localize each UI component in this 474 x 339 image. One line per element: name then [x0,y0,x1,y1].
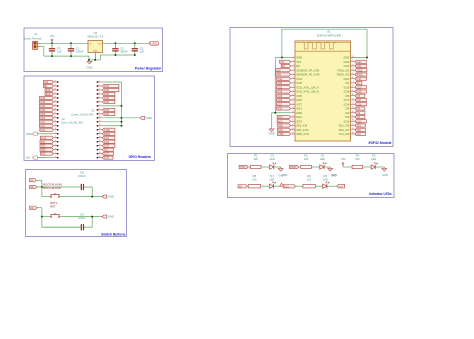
svg-text:IO19: IO19 [357,87,363,89]
svg-text:IO0: IO0 [345,111,350,115]
svg-text:12: 12 [54,112,56,114]
svg-text:8: 8 [99,108,100,110]
svg-text:220: 220 [254,157,259,161]
svg-text:3: 3 [293,64,294,66]
svg-text:IO35: IO35 [104,98,110,100]
J3 pin 18 [97,148,103,150]
node: C5 bottom [51,55,53,57]
svg-text:IO32: IO32 [104,102,110,104]
net label IO25 (U1 left) [277,94,291,98]
svg-text:IO25: IO25 [277,96,283,98]
U1 left pin 17 (SD2_IO9) [291,124,308,128]
LED D4 [269,182,275,189]
J1 reference [34,32,38,36]
svg-text:7: 7 [55,132,56,134]
svg-text:5: 5 [55,140,56,142]
J2 pin 8 [54,128,59,130]
svg-text:20: 20 [99,156,101,158]
wire led1 LED-GND [274,166,281,168]
svg-text:LED: LED [323,177,328,181]
U1 right pin 13 (IO4) [345,107,355,111]
net label IO12 (J2 pin) [40,128,54,132]
svg-text:D4: D4 [270,174,274,178]
svg-text:R1: R1 [254,154,258,158]
U1 right pin 19 (CLK_IO6) [339,132,355,136]
svg-text:IO22: IO22 [357,66,363,68]
net label IO17 (J3 pin) [102,152,113,156]
wire led1 R-LED [261,166,270,168]
net label IO33 (J2 pin) [39,108,53,112]
wire led4 tag-R [247,185,248,187]
wire led5 LED-out [327,185,337,187]
net label EN (boot circuit) [30,179,37,183]
net label IO18 (U1 right) [355,90,367,94]
R2 labels [304,154,309,161]
svg-text:IO26: IO26 [104,114,110,116]
svg-text:IO27: IO27 [40,122,46,124]
net label IO26 (J3 pin) [102,112,115,116]
svg-text:7: 7 [99,104,100,106]
J2 pin 10 [54,120,59,122]
U1 right pin 11 (IO17) [344,98,355,102]
svg-text:IO27: IO27 [277,104,283,106]
U1 left pin 1 (GND) [291,56,302,60]
net label TXD0 (U1 right) [355,69,367,73]
wire led2 R-LED [311,166,320,168]
svg-text:1µF: 1µF [57,50,62,54]
svg-text:IO26: IO26 [296,98,302,102]
net label SD0 (J2 pin) [40,152,53,156]
J3 pin 4 [97,92,103,94]
J3 pin 14 [97,132,103,134]
svg-text:RXD0_IO3: RXD0_IO3 [337,73,350,77]
U1 right pin 7 (NC) [346,81,355,85]
svg-text:IO14: IO14 [277,109,283,111]
svg-text:220: 220 [252,177,257,181]
wire led3 5v-R [343,166,352,168]
net label IO36 (J3 pin) [102,84,119,88]
svg-text:1: 1 [293,56,294,58]
svg-text:5: 5 [99,96,100,98]
J2 reference [62,117,65,121]
U1 left pin 13 (IO14) [291,107,303,111]
net label IO0 (U1 right) [355,111,365,115]
svg-text:CLK: CLK [357,134,362,136]
svg-text:17: 17 [292,124,294,126]
U1 left pin 16 (IO13) [291,119,303,123]
regulator U2 AMS1117-3.3 [88,41,103,60]
net label IO34 (J3 pin) [102,92,115,96]
J2 pin 7 [54,132,59,134]
LED D5 [323,182,329,189]
U1 left pin 4 (SENSOR_VP_IO36) [291,68,320,72]
ground (led4) [280,183,284,186]
wire U1 left pin1 [275,57,291,59]
svg-text:+5V: +5V [340,157,345,161]
svg-text:CMD: CMD [41,150,46,152]
svg-text:8: 8 [55,128,56,130]
svg-text:25: 25 [352,73,354,75]
svg-text:1: 1 [99,80,100,82]
U1 right pin 18 (SD0_IO7) [339,128,355,132]
svg-text:100nF: 100nF [78,216,86,220]
svg-text:IO12: IO12 [41,130,47,132]
svg-text:SD2_IO9: SD2_IO9 [296,124,307,128]
svg-text:IO33_XTAL_32K_N: IO33_XTAL_32K_N [296,90,319,94]
svg-text:IO25: IO25 [296,94,302,98]
wire +5V to J2 pin20 [37,157,53,159]
node: right pin1 junction [366,57,368,59]
svg-text:IO2: IO2 [345,115,350,119]
wire gnd stub [271,113,273,128]
J3 pin 16 [97,140,103,142]
net label CMD (U1 left) [278,132,291,136]
svg-text:100nF: 100nF [78,174,86,178]
C5 labels [57,46,62,53]
svg-text:IO35: IO35 [296,81,302,85]
wire led1 tag-R [248,166,251,168]
svg-text:IO18: IO18 [357,92,363,94]
section box: Indicator LEDs [228,154,395,198]
net label IO15 (led5) [283,185,295,189]
node: +5V/C5 junction [51,42,53,44]
J3 pin 5 [97,96,103,98]
node: bus row7 [121,105,123,107]
net label IO26 (U1 left) [277,98,291,102]
net label TXD0 (led1) [239,165,248,169]
net label 3V3 (U1 left) [280,60,291,64]
U1 left pin 19 (CMD_IO11) [291,132,310,136]
net label IO5 (U1 right) [355,94,365,98]
svg-text:TXD0: TXD0 [240,167,247,169]
svg-text:IO35: IO35 [277,83,283,85]
node: left pin14 junction [274,112,276,114]
svg-text:6: 6 [293,77,294,79]
U1 right pin 1 (GND) [344,56,355,60]
wire J3 pin11 to bus [102,121,121,123]
net label IO35 (J2 pin) [39,100,53,104]
capacitor C6 [132,43,138,55]
wire C9 up [91,217,93,228]
J2 pin 15 [54,100,59,102]
svg-text:IO17: IO17 [104,154,110,156]
net label IO21 (U1 right) [355,77,367,81]
svg-text:SVN: SVN [276,75,281,77]
svg-text:1µF: 1µF [140,50,145,54]
svg-text:VO: VO [98,43,101,45]
svg-text:4: 4 [99,92,100,94]
node: bus row11 [121,121,123,123]
svg-text:+5V: +5V [25,156,30,160]
svg-text:RST: RST [50,205,56,209]
U1 right pin 16 (IO15) [344,119,355,123]
net label IO16 (J3 pin) [102,156,113,160]
J3 pin 12 [97,124,103,126]
svg-text:RST1: RST1 [50,201,58,205]
svg-text:10: 10 [54,120,56,122]
section box: Switch Buttons [26,170,127,237]
U1 right pin 9 (IO18) [344,90,355,94]
J3 pin 10 [97,116,103,118]
svg-text:37: 37 [352,124,354,126]
svg-text:EN: EN [296,64,300,68]
ground (led1) [278,167,283,171]
svg-text:SENSOR_VP_IO36: SENSOR_VP_IO36 [296,68,319,72]
wire 3.3V output rail [103,42,149,44]
svg-text:GND: GND [86,66,92,70]
svg-text:D3: D3 [372,154,376,158]
svg-text:34: 34 [352,111,354,113]
wire led4 LED-GND [274,185,282,187]
section label Switch Buttons [101,232,125,236]
LED D2 [320,163,326,170]
J2 pin 14 [54,104,59,106]
svg-text:3V3: 3V3 [152,42,157,45]
svg-text:IO18: IO18 [344,90,350,94]
U1 left pin 3 (EN) [291,64,300,68]
resistor R1 [251,165,262,168]
wire led5 R-LED [315,185,322,187]
net label IO16 (U1 right) [355,103,367,107]
svg-text:BOOT-FLASH1: BOOT-FLASH1 [43,182,62,186]
GND label (led3) [382,174,388,177]
svg-text:D1: D1 [270,154,274,158]
svg-text:IO34: IO34 [40,98,46,100]
ground flag (reset) [102,215,114,219]
svg-text:IO14: IO14 [40,126,46,128]
svg-text:11: 11 [292,98,294,100]
net label IO13 (J2 pin) [40,136,53,140]
capacitor C9 [42,224,92,230]
wire GND top loop [282,29,367,57]
net label RXD0 (led2) [290,165,299,169]
svg-text:22: 22 [352,60,354,62]
svg-text:6: 6 [99,100,100,102]
C9 labels [78,212,86,220]
GND label (led1) [282,174,288,177]
svg-text:3: 3 [99,88,100,90]
resistor R6 [303,185,315,188]
net label SVP (U1 left) [276,69,291,73]
J2 pin 16 [54,96,59,98]
svg-text:31: 31 [352,98,354,100]
J3 value Conn_01x20_Pin [71,112,94,116]
svg-text:3V3: 3V3 [296,60,301,64]
C8 labels [78,171,86,179]
svg-text:ESP32-WROVER: ESP32-WROVER [317,33,342,37]
J3 pin 3 [97,88,103,90]
svg-text:R2: R2 [304,154,308,158]
svg-text:38: 38 [352,128,354,130]
svg-text:C9: C9 [80,212,84,216]
svg-text:SVP: SVP [276,70,281,72]
power +5V (led3) [340,157,345,167]
net label SVN (J2 pin) [45,92,53,96]
J2 pin 18 [54,88,59,90]
svg-text:IO4: IO4 [345,107,350,111]
svg-text:32: 32 [352,103,354,105]
net label 3V3 (J2 pin) [43,80,53,84]
svg-text:19: 19 [292,132,294,134]
U1 left pin 15 (IO12) [291,115,303,119]
net label TXD0 (J3 pin) [102,128,115,132]
svg-text:Conn_01x20_Pin: Conn_01x20_Pin [61,121,84,125]
svg-text:20: 20 [54,80,56,82]
svg-text:9: 9 [55,124,56,126]
svg-text:16: 16 [54,96,56,98]
net label NC (U1 right) [355,81,362,85]
svg-text:IO33: IO33 [277,92,283,94]
svg-text:SD0: SD0 [41,154,46,156]
wire J3 pin10 to bus [102,117,121,119]
svg-text:CLK_IO6: CLK_IO6 [339,132,350,136]
svg-text:16: 16 [292,120,294,122]
svg-text:100nF: 100nF [120,50,128,54]
U1 right pin 14 (IO0) [345,111,355,115]
svg-text:1: 1 [55,156,56,158]
capacitor C5 [49,43,55,56]
svg-text:LED: LED [270,157,275,161]
svg-text:14: 14 [292,111,294,113]
svg-text:18: 18 [99,148,101,150]
wire GND to J2 pin14 [37,133,53,135]
svg-text:39: 39 [352,132,354,134]
svg-text:SD0_IO7: SD0_IO7 [339,128,350,132]
svg-text:IO16: IO16 [104,158,110,160]
svg-text:IO15: IO15 [284,186,290,188]
U1 left pin 8 (IO32_XTAL_32K_P) [291,85,319,89]
J2 value Conn_01x20_Pin [61,121,84,125]
svg-text:GND: GND [93,51,98,53]
net label IO14 (J2 pin) [39,124,53,128]
wire U1 left pin14 gnd [272,112,291,114]
svg-text:SD2: SD2 [41,142,46,144]
svg-text:IO13: IO13 [278,121,284,123]
R5 labels [252,174,257,181]
svg-text:18: 18 [54,88,56,90]
U1 right pin 12 (IO16) [344,102,355,106]
net label IO21 (J3 pin) [102,136,115,140]
svg-text:IO27: IO27 [296,102,302,106]
svg-text:BOOT-FLASH: BOOT-FLASH [43,186,60,190]
wire left gnd bus [274,58,276,113]
node: bus row12 [121,125,123,127]
GND label (led4) [278,174,284,177]
net label SD1 (U1 right) [355,124,366,128]
wire led3 LED-GND [375,166,384,168]
svg-text:R5: R5 [253,174,257,178]
svg-text:15: 15 [292,115,294,117]
connector J1 screw terminal [33,41,41,49]
svg-text:30: 30 [352,94,354,96]
svg-text:4: 4 [293,69,294,71]
U1 right pin 15 (IO2) [345,115,355,119]
section box: Power Regulator [24,28,163,72]
svg-text:14: 14 [54,104,56,106]
node: C6 top [134,42,136,44]
svg-text:IO33: IO33 [40,110,46,112]
U1 left pin 11 (IO26) [291,98,303,102]
svg-text:IO25: IO25 [104,110,110,112]
D1 labels [270,154,275,161]
svg-text:19: 19 [54,84,56,86]
svg-text:R6: R6 [307,174,311,178]
J3 pin 9 [97,112,103,114]
J2 pin 9 [54,124,59,126]
wire sw1 to gnd node [60,216,102,218]
switch SW1 push button [50,213,60,218]
net label IO32 (U1 left) [277,86,291,90]
node: boot junction [41,186,43,188]
switch SW1 labels [50,201,58,209]
svg-text:IO39: IO39 [104,90,110,92]
net label IO13 (U1 left) [277,120,291,124]
svg-text:GND: GND [108,215,114,219]
J3 pin 11 [97,120,103,122]
ground (led3) [382,167,387,171]
svg-text:2: 2 [99,84,100,86]
node: C2 bottom [114,54,116,56]
svg-text:IO25: IO25 [40,114,46,116]
net label SD0 (U1 right) [355,128,366,132]
svg-text:SVN: SVN [46,94,51,96]
svg-text:Screw_Terminal: Screw_Terminal [24,38,42,41]
U1 right pin 6 (IO21) [344,77,355,81]
svg-text:16: 16 [99,140,101,142]
J3 pin 20 [97,156,103,158]
D3 labels [371,154,376,161]
net label IO32 (J2 pin) [39,104,53,108]
svg-text:IO34: IO34 [104,94,110,96]
J2 pin 6 [54,136,59,138]
net label IO35 (U1 left) [277,81,291,85]
svg-text:IO14: IO14 [296,107,302,111]
node: U2 gnd junction [94,59,96,61]
net label IO5 (J3 pin) [102,148,113,152]
wire U1 right pin1 gnd [351,57,368,59]
node: C6 bottom [134,54,136,56]
svg-text:13: 13 [54,108,56,110]
svg-text:RXD0: RXD0 [104,134,111,136]
J2 pin 13 [54,108,59,110]
net label SVN (U1 left) [276,73,291,77]
svg-text:GND: GND [382,174,388,177]
wire led4 R-LED [261,185,270,187]
svg-text:100nF: 100nF [76,50,84,54]
D4 labels [269,174,274,181]
svg-text:SVP: SVP [46,90,51,92]
wire boot to switch [42,187,50,197]
svg-text:9: 9 [99,112,100,114]
svg-text:13: 13 [99,128,101,130]
J2 pin 2 [54,152,59,154]
svg-text:27: 27 [352,81,354,83]
svg-text:GND: GND [146,116,152,120]
J3 pin 6 [97,100,103,102]
J2 pin 5 [54,140,59,142]
svg-text:IO22: IO22 [344,64,350,68]
svg-text:18: 18 [292,128,294,130]
svg-text:IO35: IO35 [40,102,46,104]
svg-text:U2: U2 [93,31,97,35]
net label IO0 (reset circuit) [30,206,37,210]
ESP32 antenna meander [295,43,351,52]
net label IO4 (U1 right) [355,107,365,111]
LED D3 [371,163,377,170]
GND label (regulator) [86,66,92,70]
ground flag (boot) [102,195,114,199]
U1 right pin 2 (IO23) [344,60,355,64]
